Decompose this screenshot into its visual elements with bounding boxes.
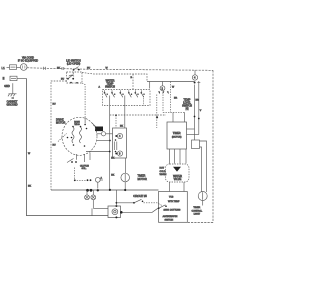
wire N row — [17, 78, 27, 80]
motor right exits — [93, 124, 96, 127]
svg-text:GND: GND — [4, 85, 10, 88]
svg-text:A: A — [99, 86, 101, 89]
centrifugal blade — [58, 134, 67, 142]
filter rect — [94, 207, 109, 209]
svg-text:W: W — [172, 87, 175, 89]
svg-text:SOL.: SOL. — [82, 168, 87, 170]
wire to timer — [156, 116, 158, 118]
wire lamp feeds — [200, 147, 202, 192]
contact drop verticals — [109, 96, 111, 191]
timer feed wires — [163, 111, 185, 113]
contacts group — [104, 90, 108, 97]
svg-text:BU: BU — [87, 68, 90, 70]
svg-text:MOTOR: MOTOR — [138, 178, 147, 181]
svg-text:SWITCH: SWITCH — [165, 220, 174, 222]
pin 2 — [162, 82, 164, 86]
winding 2 — [80, 127, 82, 143]
timer motor TM — [121, 173, 130, 182]
label N — [3, 77, 5, 80]
switch box A — [113, 128, 127, 158]
wire fuse to plug — [17, 67, 21, 69]
svg-text:COLD: COLD — [160, 171, 166, 173]
switch at box B left — [158, 207, 160, 209]
water valve — [166, 164, 190, 182]
ground symbol chassis — [9, 93, 17, 95]
svg-text:TUB: TUB — [169, 196, 174, 198]
svg-text:BR: BR — [174, 98, 177, 100]
wire dashed drop — [75, 168, 87, 181]
power cord plug P1 — [20, 64, 27, 71]
capacitor bars — [113, 142, 115, 151]
wire main top line L1 — [27, 68, 213, 71]
grounding plugs — [86, 190, 88, 195]
timer box — [167, 122, 187, 149]
svg-text:B: B — [131, 77, 133, 79]
svg-text:BR: BR — [196, 100, 199, 102]
wire mid horizontal bus — [51, 189, 159, 191]
winding 1 — [72, 127, 74, 143]
water temp switch box — [103, 90, 151, 106]
svg-text:WARM: WARM — [160, 173, 167, 176]
svg-text:CONTROL: CONTROL — [191, 210, 202, 212]
wire lid box to motor — [82, 83, 85, 117]
switch on main line — [73, 69, 75, 71]
svg-text:MAIN: MAIN — [74, 121, 80, 124]
svg-text:BU: BU — [61, 79, 64, 81]
svg-text:SWITCH: SWITCH — [105, 85, 115, 88]
wire water temp box feed — [132, 74, 134, 90]
svg-text:2: 2 — [162, 87, 164, 90]
svg-text:(MOTOR): (MOTOR) — [172, 137, 182, 139]
svg-text:4: 4 — [194, 77, 196, 80]
wire pump feed stub — [115, 190, 117, 206]
fuse F2 — [10, 76, 17, 80]
pin 5 row — [87, 179, 89, 181]
box A feed stubs — [115, 115, 117, 128]
wire bottom right dashed — [188, 222, 214, 224]
svg-text:L1: L1 — [2, 66, 6, 70]
svg-text:WDG: WDG — [74, 124, 80, 126]
svg-text:100% COTTONS: 100% COTTONS — [164, 210, 181, 212]
wire pump to right — [122, 208, 158, 213]
wire valve to box B — [169, 182, 171, 192]
pin 4 — [194, 70, 196, 74]
svg-text:BU: BU — [53, 104, 56, 106]
pin 4b — [117, 133, 122, 138]
junction dots on bus — [86, 189, 89, 192]
svg-text:(LID OPEN): (LID OPEN) — [67, 63, 81, 66]
svg-text:TIMER: TIMER — [193, 207, 200, 209]
lid switch box S1 — [67, 72, 83, 83]
svg-text:BK: BK — [28, 186, 31, 188]
wire lid feed vertical — [51, 81, 67, 190]
svg-text:BU: BU — [53, 145, 56, 147]
svg-text:[4]: [4] — [186, 108, 189, 111]
wire pin4 columns — [194, 85, 196, 141]
wire ground link — [12, 83, 14, 93]
switch box C — [192, 140, 200, 149]
fuse F1 — [10, 65, 17, 70]
svg-text:BK: BK — [111, 175, 114, 177]
wire second dashed line — [82, 73, 147, 82]
svg-text:TIMER: TIMER — [173, 132, 181, 135]
svg-text:BK: BK — [120, 126, 123, 128]
svg-text:4: 4 — [119, 135, 121, 138]
connector blob — [95, 127, 103, 132]
svg-text:VALVE: VALVE — [174, 178, 182, 181]
lamp — [198, 192, 207, 201]
selector box B — [159, 192, 188, 223]
svg-text:HOT: HOT — [160, 168, 165, 170]
wire below water temp box — [110, 114, 166, 116]
svg-text:GROUND: GROUND — [6, 103, 17, 106]
wire tm to bus — [124, 182, 126, 190]
wire box A down to timer motor — [125, 158, 127, 173]
svg-text:MOTOR: MOTOR — [56, 122, 65, 125]
svg-text:BK: BK — [57, 67, 60, 69]
wire right side vertical — [212, 70, 214, 222]
drain pump box — [108, 206, 121, 218]
svg-text:A: A — [101, 176, 103, 179]
svg-text:CLUTCH: CLUTCH — [80, 166, 89, 168]
svg-text:V: V — [200, 110, 202, 112]
pin 3b — [117, 151, 122, 156]
svg-text:WTR TEMP: WTR TEMP — [168, 201, 180, 203]
svg-text:3: 3 — [119, 153, 121, 156]
connector ticks — [43, 67, 45, 70]
svg-text:LIGHT: LIGHT — [194, 214, 201, 216]
wire motor to box A vertical — [97, 140, 110, 142]
svg-text:AGITATE/SPIN: AGITATE/SPIN — [163, 215, 178, 218]
wire bottom neutral return — [27, 79, 109, 216]
svg-text:W: W — [28, 153, 31, 155]
timer bottom outputs — [169, 149, 171, 164]
svg-text:CIRCUIT #5: CIRCUIT #5 — [133, 195, 147, 198]
wires right of timer — [187, 128, 195, 130]
motor bottom exits — [76, 154, 78, 160]
svg-text:IF SO EQUIPPED: IF SO EQUIPPED — [18, 60, 38, 63]
wire circuit5 — [116, 202, 133, 204]
wire L1 stub — [7, 67, 10, 69]
